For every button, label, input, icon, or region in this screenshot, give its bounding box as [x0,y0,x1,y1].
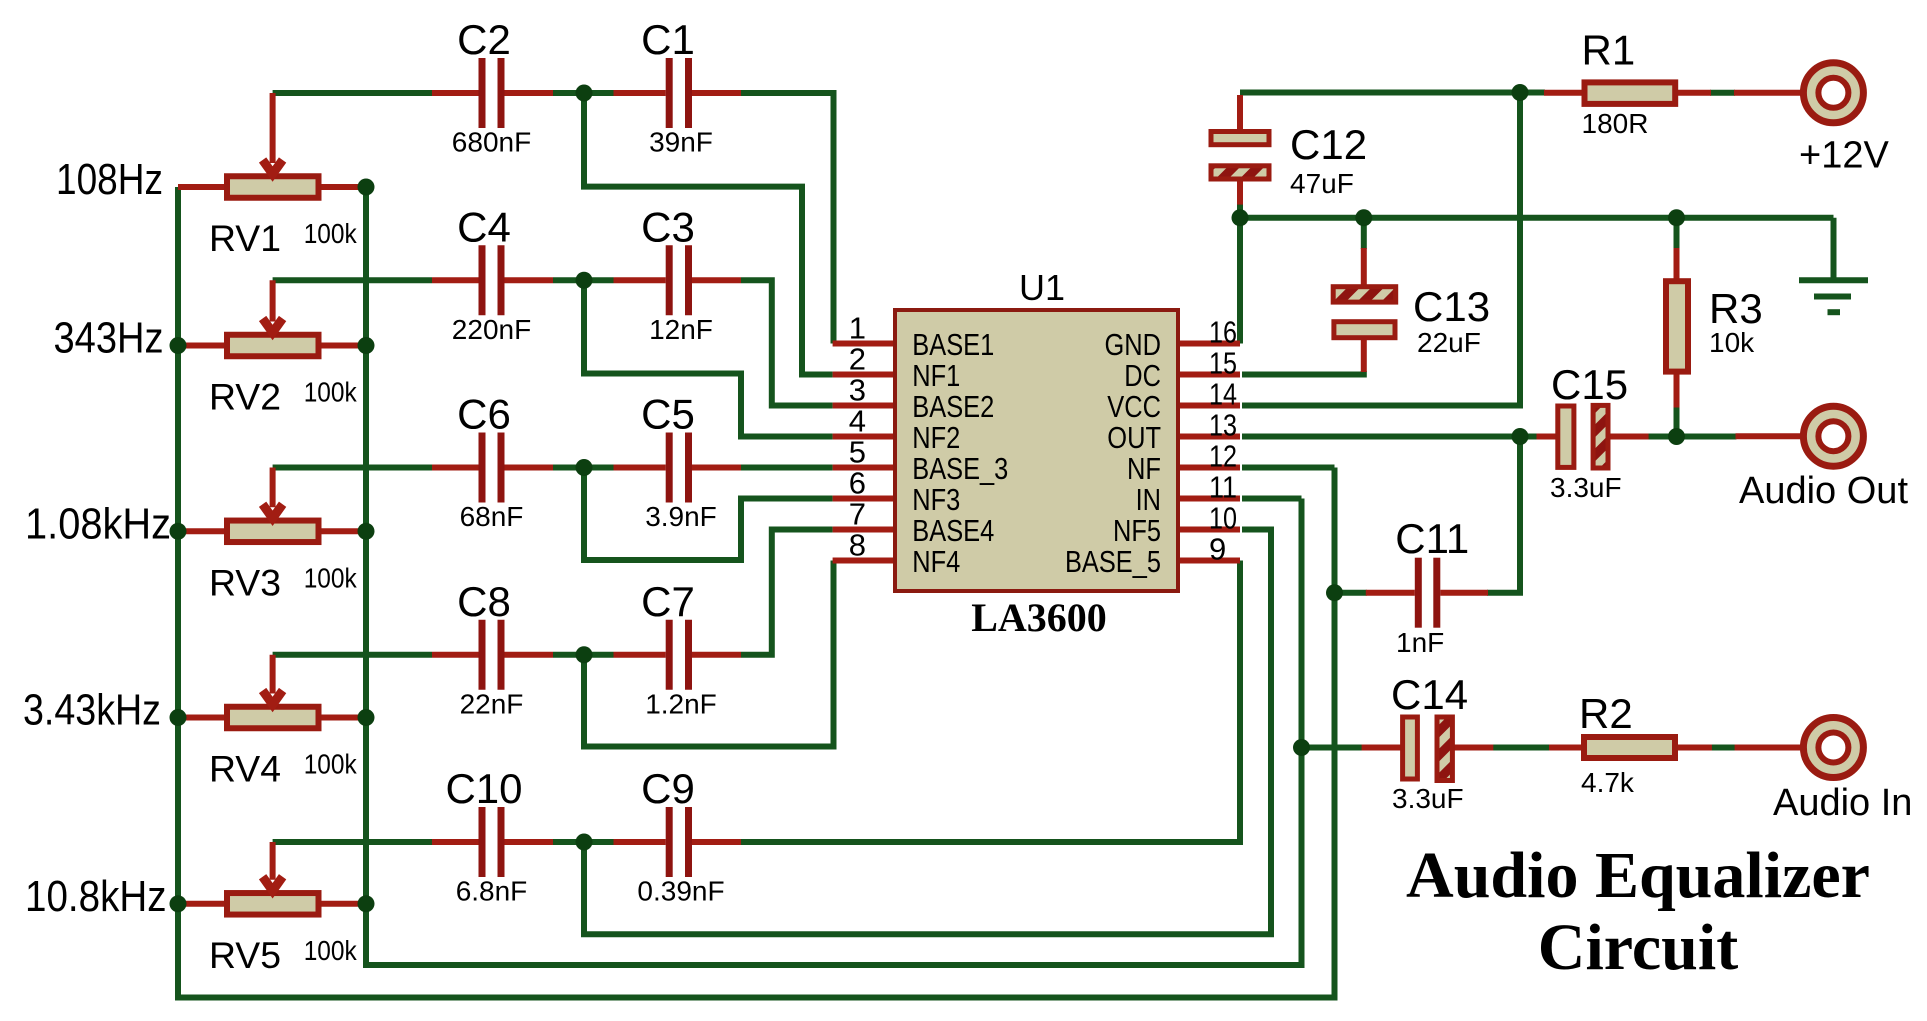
node left bus junction RV5 [170,895,187,912]
svg-text:R3: R3 [1709,285,1763,332]
pin name GND [1105,327,1162,362]
svg-text:C6: C6 [457,391,511,438]
lead C3 left [614,277,666,283]
wire pin 13 (OUT) to C15 [1242,434,1538,440]
label C12 value 47uF [1290,168,1354,199]
lead C1 left [614,90,666,96]
label LA3600 [971,595,1107,640]
svg-text:3.3uF: 3.3uF [1550,472,1622,503]
lead C4 left [432,277,479,283]
pin name OUT [1107,420,1161,455]
label RV4 value 100k [304,749,358,780]
svg-text:10.8kHz: 10.8kHz [25,872,167,921]
node right bus junction RV4 [358,709,375,726]
lead RV4 left [178,715,227,721]
lead C8 right [505,652,554,658]
pin number 9 [1209,532,1226,567]
svg-text:343Hz: 343Hz [54,314,164,363]
label C14 value 3.3uF [1392,783,1464,814]
svg-text:12nF: 12nF [649,314,713,345]
svg-text:C8: C8 [457,578,511,625]
pin 8 stub [833,558,895,564]
svg-text:VCC: VCC [1107,389,1161,424]
lead C13 bottom [1361,338,1367,372]
pin 11 stub [1178,496,1240,502]
svg-text:C15: C15 [1551,361,1628,408]
lead +12V terminal [1734,90,1801,96]
svg-text:220nF: 220nF [452,314,531,345]
label C1 [641,16,695,63]
wire row3 between caps [553,465,614,471]
label C8 value [460,688,524,719]
svg-text:100k: 100k [304,218,358,249]
wire C14 to R2 green part [1492,745,1550,751]
wire R3 bottom lead green part [1674,407,1680,437]
capacitor C15 [1558,405,1608,468]
pin number 1 [849,311,866,346]
svg-text:47uF: 47uF [1290,168,1354,199]
svg-text:R1: R1 [1582,27,1636,74]
pin number 15 [1209,346,1237,381]
pin name VCC [1107,389,1161,424]
node C15/R3/audio-out junction [1668,428,1685,445]
svg-text:9: 9 [1209,532,1226,567]
wire R1 right green part [1710,90,1735,96]
lead C11 right [1440,590,1488,596]
capacitor C7 [666,620,692,690]
pin number 2 [849,342,866,377]
potentiometer RV3 [227,468,319,543]
svg-text:IN: IN [1136,482,1161,517]
terminal Audio Out [1803,406,1863,466]
svg-text:DC: DC [1124,358,1161,393]
wire row5 junction to pin 10 (NF5) [584,530,1271,935]
svg-text:108Hz: 108Hz [56,155,163,204]
svg-text:12: 12 [1209,439,1237,474]
wire R3 top lead green part [1674,218,1680,249]
label 108Hz [56,155,163,204]
wire row1 wiper horizontal [273,90,432,96]
resistor R2 [1584,737,1675,758]
label RV3 value 100k [304,562,358,593]
svg-text:C10: C10 [445,765,522,812]
pin name BASE_5 [1065,544,1161,579]
lead R3 top [1674,248,1680,281]
svg-text:3: 3 [849,373,866,408]
pin number 6 [849,466,866,501]
label C2 value [452,127,531,158]
svg-text:BASE1: BASE1 [912,327,994,362]
capacitor C2 [479,58,505,128]
pin name BASE_3 [912,451,1008,486]
svg-text:OUT: OUT [1107,420,1161,455]
label plus12V [1799,135,1889,177]
wire C15 to audio-out junction [1648,434,1737,440]
terminal Audio In [1803,718,1863,778]
lead C12 top [1237,95,1243,131]
potentiometer RV1 [227,93,319,198]
svg-text:NF3: NF3 [912,482,960,517]
pin number 10 [1209,501,1237,536]
label C5 [641,391,695,438]
lead C6 right [505,465,554,471]
pin name DC [1124,358,1161,393]
svg-text:6: 6 [849,466,866,501]
label R3 value 10k [1709,327,1755,358]
svg-text:C12: C12 [1290,121,1367,168]
svg-text:2: 2 [849,342,866,377]
ground [1799,280,1868,312]
svg-text:BASE_3: BASE_3 [912,451,1008,486]
label 1.08kHz [25,499,171,548]
label 343Hz [54,314,164,363]
svg-text:R2: R2 [1579,690,1633,737]
lead C15 left [1537,434,1558,440]
pin name NF1 [912,358,960,393]
node R1/VCC junction [1512,84,1529,101]
label RV2 value 100k [304,377,358,408]
svg-text:10k: 10k [1709,327,1755,358]
lead RV5 right [319,901,367,907]
svg-text:13: 13 [1209,408,1237,443]
label C1 value [649,127,713,158]
svg-text:680nF: 680nF [452,127,531,158]
svg-text:100k: 100k [304,562,358,593]
wire row4 C7 to pin 7 [741,530,833,655]
label Audio In [1773,782,1912,824]
pin 16 stub [1178,341,1240,347]
wire row2 C3 to pin 3 [741,280,833,405]
lead RV2 left [178,343,227,349]
svg-text:RV2: RV2 [209,377,281,418]
svg-text:10: 10 [1209,501,1237,536]
lead C8 left [432,652,479,658]
svg-text:GND: GND [1105,327,1162,362]
lead C13 top [1361,248,1367,287]
svg-text:15: 15 [1209,346,1237,381]
label RV3 [209,562,281,603]
label R2 value 4.7k [1581,767,1635,798]
wire row4 junction to pin 8 (NF4) [584,561,834,747]
svg-text:RV4: RV4 [209,749,281,790]
svg-text:BASE_5: BASE_5 [1065,544,1161,579]
svg-text:8: 8 [849,528,866,563]
label C8 [457,578,511,625]
wire R1 left green part [1520,90,1545,96]
label RV5 value 100k [304,935,358,966]
pin 12 stub [1178,465,1240,471]
node row3 mid junction [576,459,593,476]
svg-text:NF1: NF1 [912,358,960,393]
label R1 value 180R [1582,108,1649,139]
lead R3 bottom [1674,372,1680,408]
label C3 value [649,314,713,345]
label C13 [1413,283,1490,330]
pin 9 stub [1178,558,1240,564]
capacitor C4 [479,245,505,315]
svg-text:68nF: 68nF [460,501,524,532]
svg-text:Audio Out: Audio Out [1739,470,1908,512]
wire left bus vertical + bottom run to pin 12 net [178,187,1335,998]
capacitor C5 [666,433,692,503]
svg-text:+12V: +12V [1799,135,1889,177]
pin 10 stub [1178,527,1240,533]
label C3 [641,203,695,250]
wire C11 left lead green part [1335,590,1367,596]
pin name BASE1 [912,327,994,362]
label C11 value 1nF [1396,627,1444,658]
pin number 13 [1209,408,1237,443]
wire pin 11 stub-to-bus horizontal [1242,496,1302,502]
wire row2 wiper horizontal [273,277,432,283]
pin 13 stub [1178,434,1240,440]
svg-text:RV3: RV3 [209,562,281,603]
svg-text:1nF: 1nF [1396,627,1444,658]
pin name BASE2 [912,389,994,424]
svg-text:RV5: RV5 [209,935,281,976]
svg-text:5: 5 [849,435,866,470]
pin number 4 [849,404,866,439]
node row1 mid junction [576,85,593,102]
svg-text:Audio Equalizer: Audio Equalizer [1406,839,1870,912]
label R3 [1709,285,1763,332]
svg-text:3.3uF: 3.3uF [1392,783,1464,814]
node C11/pin12 junction [1326,584,1343,601]
label C2 [457,16,511,63]
lead C12 bottom [1237,180,1243,205]
lead C2 left [432,90,479,96]
svg-text:C4: C4 [457,203,511,250]
pin number 8 [849,528,866,563]
lead C15 right [1608,434,1649,440]
lead C7 right [692,652,741,658]
svg-text:3.9nF: 3.9nF [645,501,717,532]
lead C4 right [505,277,554,283]
pin 4 stub [833,434,895,440]
capacitor C12 [1211,132,1269,180]
label C5 value [645,501,717,532]
label C11 [1395,515,1469,562]
node left bus junction RV2 [170,337,187,354]
label RV2 [209,377,281,418]
svg-text:C1: C1 [641,16,695,63]
lead RV5 left [178,901,227,907]
label title line2 [1538,911,1738,984]
capacitor C1 [666,58,692,128]
pin number 7 [849,497,866,532]
pin 2 stub [833,372,895,378]
lead R2 right [1675,745,1712,751]
capacitor C10 [479,807,505,877]
svg-text:22nF: 22nF [460,688,524,719]
wire OUT junction down to C11 [1487,437,1520,593]
wire GND rail y=217.7 [1240,215,1834,221]
svg-text:39nF: 39nF [649,127,713,158]
svg-text:22uF: 22uF [1417,327,1481,358]
label C7 value [645,688,717,719]
label RV1 [209,218,281,259]
svg-text:3.43kHz: 3.43kHz [23,686,161,735]
lead C1 right [692,90,741,96]
capacitor C3 [666,245,692,315]
lead R1 left [1544,90,1585,96]
svg-text:C9: C9 [641,765,695,812]
pin name NF4 [912,544,960,579]
svg-text:1.2nF: 1.2nF [645,688,717,719]
svg-text:180R: 180R [1582,108,1649,139]
lead C5 right [692,465,741,471]
lead audio-in terminal [1735,745,1801,751]
svg-text:Circuit: Circuit [1538,911,1738,984]
label C4 [457,203,511,250]
label C9 [641,765,695,812]
wire VCC vertical (R1 junction to pin 14) [1242,93,1520,406]
node C13 top junction [1355,209,1372,226]
label R1 [1582,27,1636,74]
wire +12V top rail [1240,90,1520,96]
lead C3 right [692,277,741,283]
wire C13 top lead green part [1361,218,1367,249]
svg-text:BASE4: BASE4 [912,513,994,548]
node C14/pin11 junction [1293,739,1310,756]
pin 15 stub [1178,372,1240,378]
pin 5 stub [833,465,895,471]
svg-text:100k: 100k [304,935,358,966]
label RV5 [209,935,281,976]
label C4 value [452,314,531,345]
svg-text:NF4: NF4 [912,544,960,579]
svg-text:100k: 100k [304,749,358,780]
wire row4 wiper horizontal [273,652,432,658]
wire row5 wiper horizontal [273,839,432,845]
lead RV1 right [319,184,367,190]
label U1 [1019,267,1065,308]
lead R1 right [1675,90,1711,96]
pin 1 stub [833,341,895,347]
lead C9 right [692,839,741,845]
wire row1 C1 to pin 1 [741,93,834,344]
svg-text:4.7k: 4.7k [1581,767,1635,798]
wire C12 bottom lead green part [1237,204,1243,218]
pin 7 stub [833,527,895,533]
lead C7 left [614,652,666,658]
label Audio Out [1739,470,1908,512]
svg-text:1: 1 [849,311,866,346]
svg-text:NF5: NF5 [1113,513,1161,548]
pin number 12 [1209,439,1237,474]
node right bus junction RV2 [358,337,375,354]
lead R2 left [1549,745,1584,751]
label C15 [1551,361,1628,408]
pin number 3 [849,373,866,408]
lead RV3 right [319,528,367,534]
wire R2 to audio-in green part [1711,745,1736,751]
pin 6 stub [833,496,895,502]
label 3.43kHz [23,686,161,735]
pin name NF2 [912,420,960,455]
lead C5 left [614,465,666,471]
node OUT/C15 junction [1512,428,1529,445]
pin name IN [1136,482,1161,517]
wire row5 between caps [553,839,614,845]
wire row3 C5 to pin 5 [741,465,833,471]
lead C6 left [432,465,479,471]
capacitor C8 [479,620,505,690]
label C13 value 22uF [1417,327,1481,358]
wire ground drop [1831,218,1837,280]
label C15 value 3.3uF [1550,472,1622,503]
svg-text:C7: C7 [641,578,695,625]
label C10 [445,765,522,812]
op-amp IC U1 LA3600 body [895,310,1178,591]
svg-text:C11: C11 [1395,515,1469,562]
resistor R1 [1585,82,1676,104]
svg-text:BASE2: BASE2 [912,389,994,424]
svg-text:C14: C14 [1391,671,1468,718]
lead C11 left [1366,590,1415,596]
capacitor C13 [1333,287,1396,338]
capacitor C9 [666,807,692,877]
pin name NF5 [1113,513,1161,548]
resistor R3 [1666,281,1688,371]
svg-text:C13: C13 [1413,283,1490,330]
svg-text:11: 11 [1209,470,1237,505]
wire row2 between caps [553,277,614,283]
pin number 16 [1209,315,1237,350]
label C7 [641,578,695,625]
lead C9 left [614,839,666,845]
label C10 value [456,876,528,907]
wire right bus vertical + bottom run to pin 11 net [366,187,1302,965]
label title line1 [1406,839,1870,912]
svg-text:4: 4 [849,404,866,439]
wire C13 bottom lead to pin 15 [1242,371,1364,375]
label C9 value [637,876,724,907]
lead RV1 left [178,184,227,190]
pin name NF [1127,451,1161,486]
svg-text:C3: C3 [641,203,695,250]
wire pin 12 stub-to-bus horizontal [1242,465,1335,471]
pin 14 stub [1178,403,1240,409]
terminal +12V [1803,63,1863,123]
wire C14 left lead green part [1302,745,1363,751]
svg-text:7: 7 [849,497,866,532]
node left bus junction RV3 [170,523,187,540]
wire row1 between caps [553,90,614,96]
svg-text:16: 16 [1209,315,1237,350]
pin name NF3 [912,482,960,517]
svg-text:14: 14 [1209,377,1237,412]
wire row5 C9 to pin 9 (BASE_5) [741,561,1240,843]
node left bus junction RV4 [170,709,187,726]
capacitor C14 [1403,717,1453,781]
lead C2 right [505,90,554,96]
lead audio-out terminal [1736,433,1802,439]
label 10.8kHz [25,872,167,921]
svg-text:RV1: RV1 [209,218,281,259]
wire row3 wiper horizontal [273,465,432,471]
svg-text:Audio In: Audio In [1773,782,1912,824]
pin number 14 [1209,377,1237,412]
label RV4 [209,749,281,790]
potentiometer RV2 [227,280,319,356]
pin number 11 [1209,470,1237,505]
lead C14 right [1452,745,1493,751]
lead RV2 right [319,343,367,349]
lead C10 left [432,839,479,845]
svg-text:LA3600: LA3600 [971,595,1107,640]
label C6 value [460,501,524,532]
